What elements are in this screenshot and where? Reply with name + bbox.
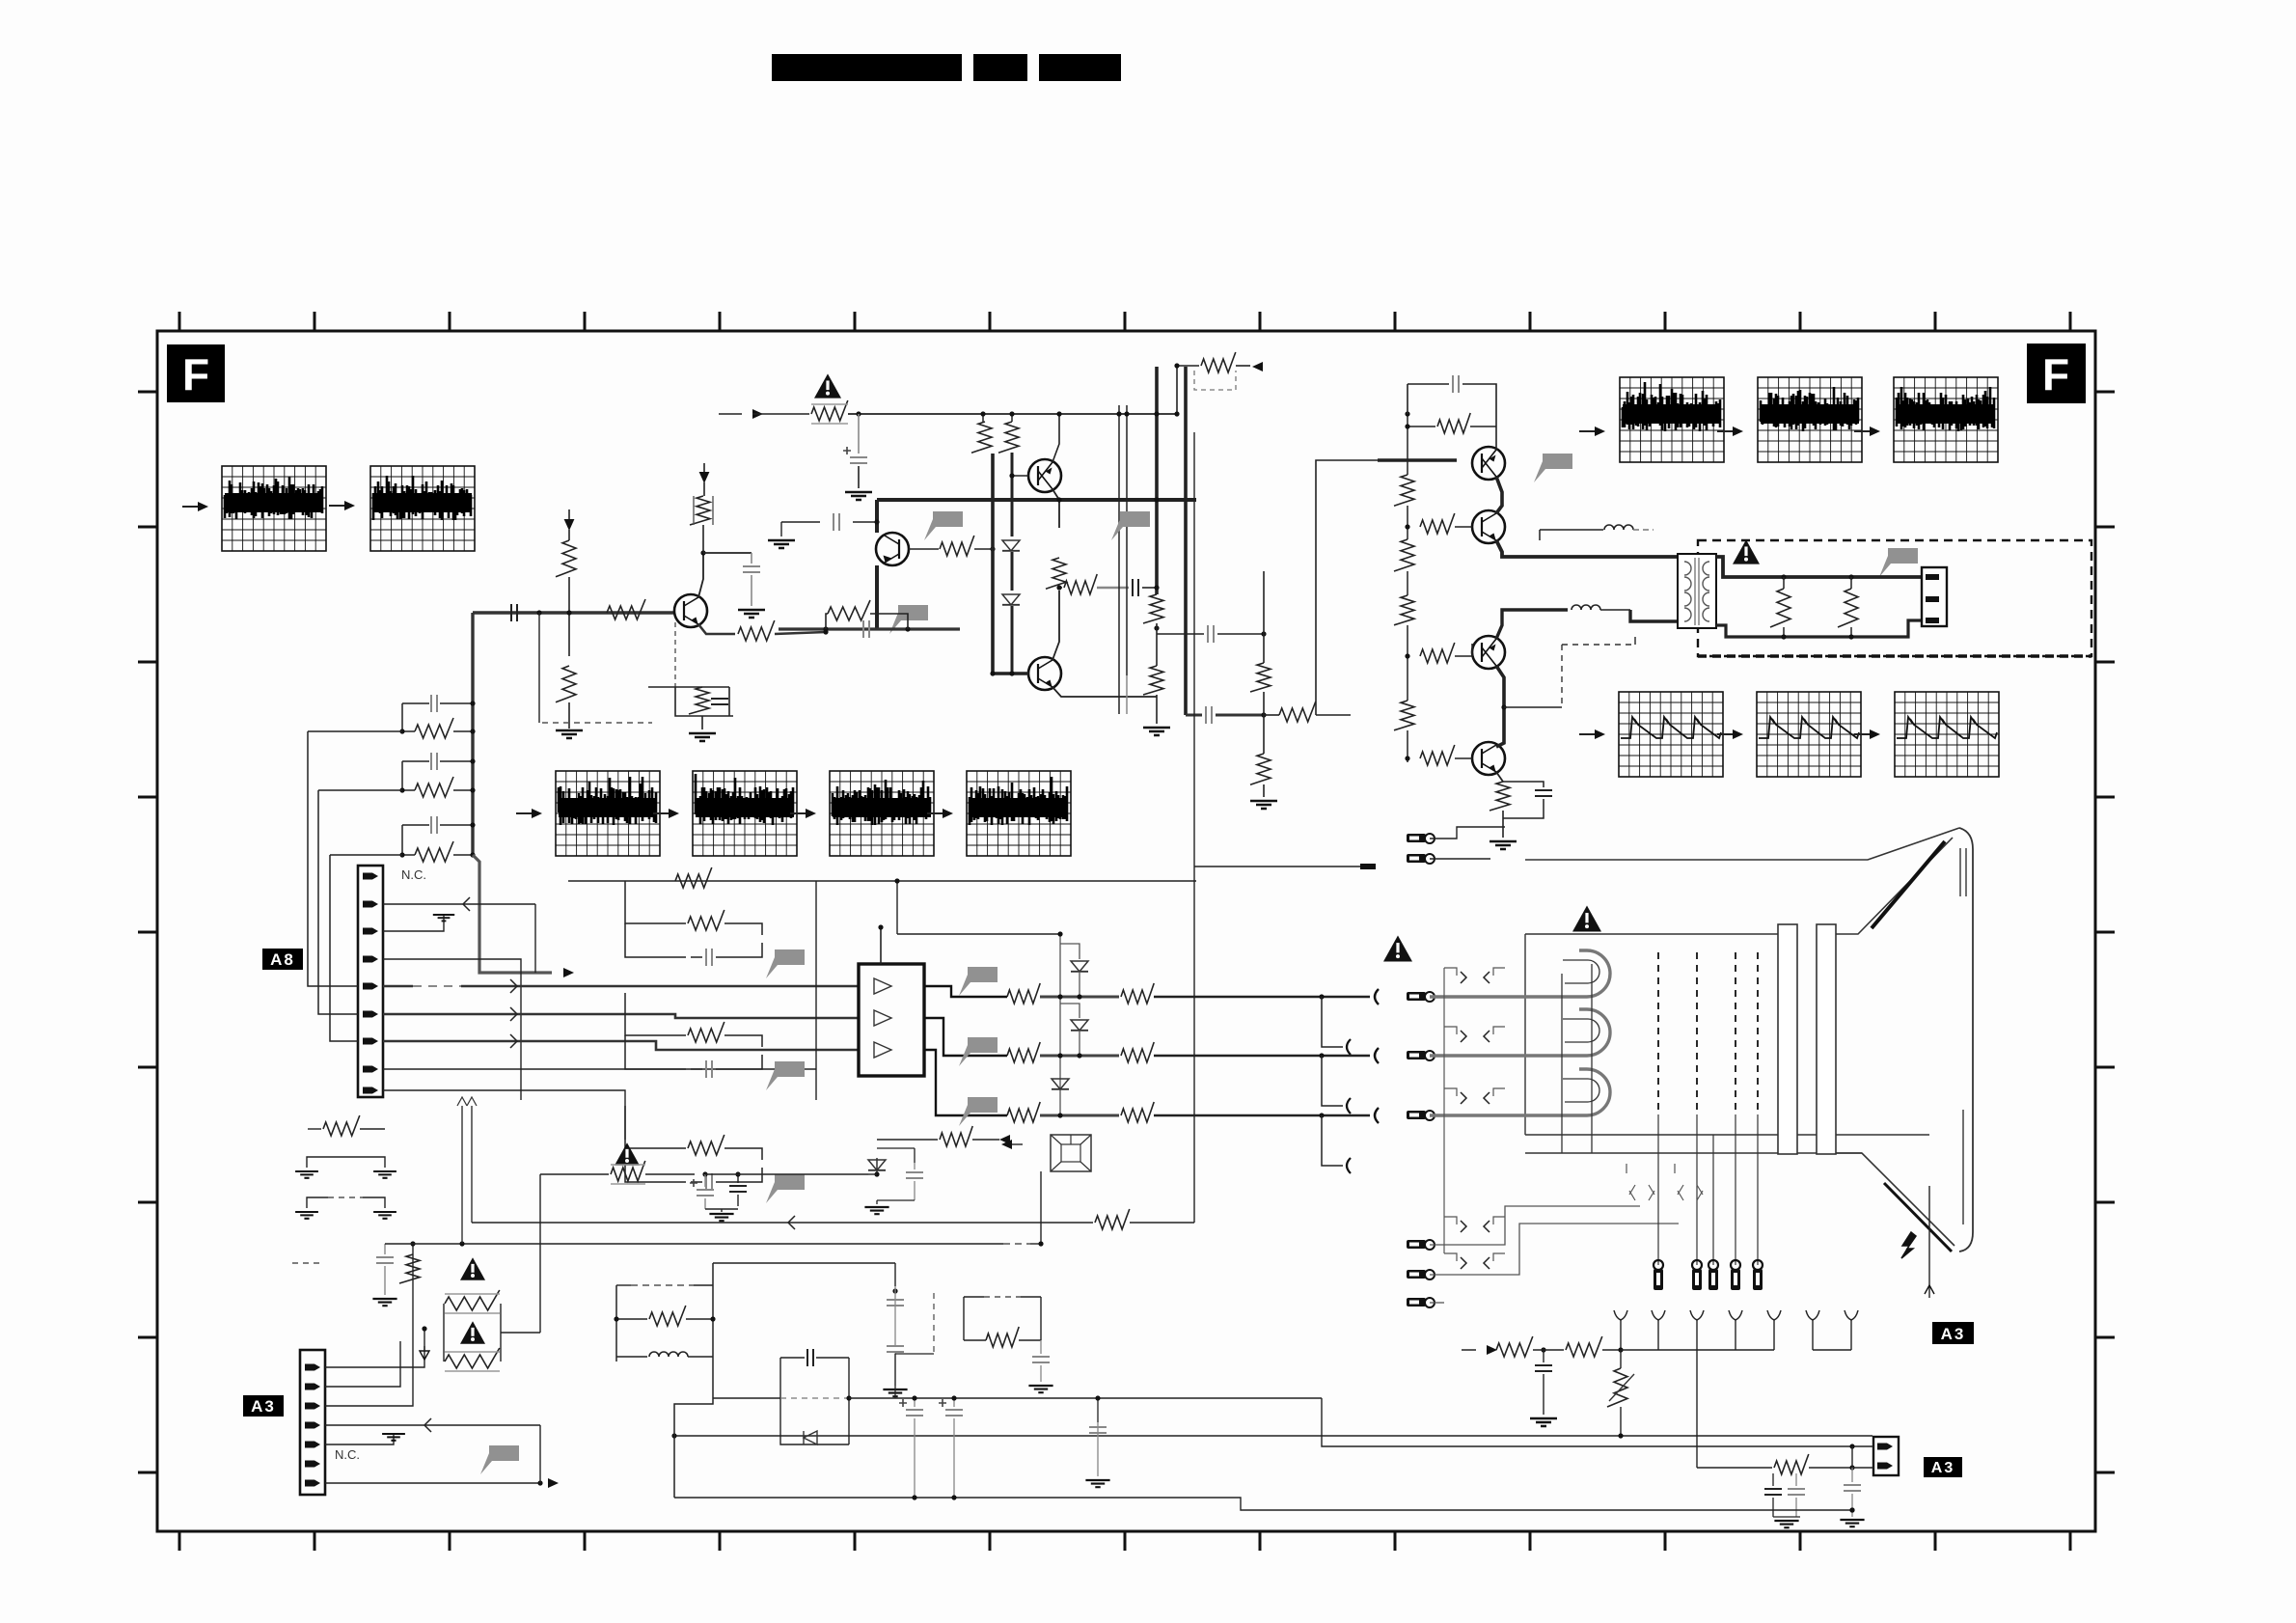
- resistor (T1 emitter): [738, 620, 775, 641]
- electrolytic cap x989: [953, 1398, 955, 1407]
- long wire 1267: [472, 1222, 1093, 1224]
- capacitor (channel 3): [625, 1148, 686, 1182]
- capacitor (channel 2): [625, 1035, 686, 1069]
- wire T3 base: [1012, 475, 1028, 477]
- capacitor (rail pair): [1126, 675, 1128, 714]
- convergence arrows y1309: [1444, 1253, 1457, 1261]
- pin9 wire: [383, 1090, 625, 1140]
- grid stub 3: [1322, 1115, 1343, 1166]
- resistor (panel b): [1838, 589, 1858, 627]
- signal arrow input: [752, 409, 763, 419]
- capacitor (conn filter a): [1775, 1468, 1777, 1486]
- RGB wire 3: [383, 1041, 859, 1050]
- CRT pin plug 2: [1407, 1051, 1426, 1059]
- resistor (T1 base): [607, 599, 645, 619]
- flag note (T2 collector): [924, 511, 963, 540]
- flag note (amp out 3): [959, 1097, 998, 1126]
- capacitor (connector filter c): [1851, 1468, 1853, 1482]
- electrolytic capacitor (input filter): [858, 414, 860, 454]
- grid stub 2: [1322, 1056, 1343, 1106]
- wire T4 emitter: [1052, 687, 1157, 697]
- resistor (channel 2 input): [625, 993, 686, 1035]
- deflection arrow pair x1750: [1674, 1164, 1676, 1173]
- svg-text:F: F: [182, 349, 209, 399]
- ground (rail c): [1143, 728, 1170, 735]
- HV return bus: [674, 1435, 1872, 1437]
- transistor T5: [1472, 447, 1505, 480]
- thick T5-T6 junction: [1496, 477, 1502, 513]
- thick wire panel bottom: [1716, 620, 1922, 637]
- T5 collector loop: [1462, 384, 1496, 450]
- electron gun heater 2: [1430, 1009, 1610, 1056]
- convergence arrows y1138: [1444, 1088, 1457, 1096]
- RC ladder rung 1: [401, 703, 403, 731]
- deflection arrow pair x1700: [1626, 1164, 1627, 1173]
- electrolytic cap x948: [914, 1398, 916, 1407]
- capacitor (input coupling): [511, 604, 517, 621]
- CRT bell top slant: [1836, 838, 1953, 934]
- svg-text:N.C.: N.C.: [401, 867, 426, 882]
- capacitor (right leg): [1097, 1398, 1099, 1422]
- capacitor (feedback): [711, 699, 728, 704]
- oscillogram waveform box 1: [222, 466, 326, 551]
- resistor (T1 bias upper): [556, 540, 576, 577]
- resistor (T7 base): [1420, 643, 1455, 663]
- cap pair right: [894, 1263, 896, 1286]
- flag note (rail pair): [1111, 511, 1150, 540]
- zone label F top-right: [2027, 344, 2086, 403]
- gap feed vertical: [1696, 1350, 1698, 1468]
- resistor (emitter degeneration): [826, 614, 828, 629]
- CRT grid electrode 1: [1778, 924, 1797, 1154]
- diode clamp column: [1059, 934, 1061, 1115]
- wire tee up: [1176, 366, 1178, 414]
- CRT bell bottom slant: [1836, 1153, 1954, 1246]
- focus pins: [1407, 1240, 1426, 1249]
- warning triangle (safety R inner): [460, 1321, 485, 1343]
- capacitor (emitter bypass): [863, 620, 869, 638]
- CRT screen pictogram: [1051, 1135, 1091, 1171]
- capacitor (coupling to rail): [1133, 579, 1138, 596]
- spark gap x1799: [1729, 1310, 1742, 1320]
- wire G2 top: [897, 933, 1060, 935]
- bottom rail: [674, 1497, 972, 1499]
- connector A8: [358, 866, 383, 1097]
- bottom rail right: [972, 1498, 1852, 1510]
- waveform pointer arrows: [182, 506, 198, 508]
- flag note (T2 emitter): [889, 605, 928, 634]
- resistor (wire 1267): [1095, 1209, 1130, 1229]
- resistor (bleeder b): [1566, 1336, 1602, 1357]
- title bar 3: [1039, 54, 1121, 81]
- focus bleeder arrow: [1487, 1345, 1497, 1355]
- svg-text:N.C.: N.C.: [335, 1447, 360, 1462]
- connector (panel 3-pin): [1922, 567, 1947, 626]
- electrolytic (degauss): [702, 1171, 707, 1176]
- label A3 (bottom right): [1924, 1457, 1962, 1477]
- flag note (channel 3): [766, 1174, 805, 1203]
- diode D1: [1002, 540, 1020, 551]
- emitter bottom bus: [779, 627, 877, 630]
- wire T4 collector: [1052, 591, 1059, 660]
- lightning bolt: [1901, 1232, 1916, 1258]
- safety resistor pair: [443, 1304, 445, 1362]
- coil (drive bottom): [1572, 605, 1600, 610]
- wire mid join: [894, 1354, 896, 1398]
- spark gap x1839: [1767, 1310, 1781, 1320]
- resistor (rail c lower): [1143, 666, 1163, 695]
- thick collector bus: [877, 498, 1196, 502]
- resistor (feedback): [689, 687, 709, 714]
- legend jumper: [307, 1157, 385, 1168]
- T8 emitter network: [1496, 772, 1503, 782]
- CRT base pins: [1654, 1260, 1663, 1270]
- flag note (A3): [480, 1445, 519, 1474]
- cathode terminal 3: [1375, 1108, 1379, 1123]
- oscillogram waveform box 9: [1894, 377, 1998, 462]
- amp output wires: [924, 986, 1007, 997]
- thick rail a: [991, 454, 995, 674]
- long feedback wire top: [568, 880, 1196, 882]
- wire T2 base: [909, 548, 939, 550]
- ladder feed wires: [308, 730, 402, 732]
- flag note T5: [1534, 454, 1572, 482]
- capacitor (channel 1): [625, 923, 686, 957]
- resistor + arrow (sync out): [877, 1139, 938, 1141]
- transistor T4: [1028, 657, 1061, 690]
- convergence arrows y1271: [1444, 1217, 1457, 1224]
- capacitor (rect filter): [914, 1163, 916, 1169]
- wire T1 input bus: [473, 611, 674, 614]
- convergence arrows y1074: [1444, 1027, 1457, 1034]
- RGB wire 1 (dashed start): [383, 985, 413, 988]
- ground (T1 bias): [556, 730, 583, 738]
- dashed top (degauss): [631, 1284, 694, 1286]
- resistor (degauss R): [616, 1318, 647, 1320]
- RC ladder rung 3: [401, 825, 403, 855]
- resistor (top row): [1201, 352, 1236, 372]
- thick T6 emitter to transformer: [1496, 540, 1678, 557]
- resistor (T6 base): [1420, 513, 1455, 534]
- cathode terminal 1: [1375, 989, 1379, 1004]
- arrow out (top row): [1252, 362, 1263, 371]
- resistor (panel a): [1770, 589, 1790, 627]
- flag note (amp out 1): [959, 967, 998, 996]
- capacitor mid link: [1208, 625, 1214, 643]
- fusible resistor (degauss feed): [615, 1142, 640, 1165]
- supply arrow (T1 collector): [699, 472, 710, 483]
- 2-pin connector (bottom right): [1873, 1437, 1899, 1475]
- dashed vertical (degauss): [933, 1293, 935, 1354]
- wire rail d bottom: [1186, 714, 1202, 717]
- resistor (rail e lower): [1250, 754, 1271, 784]
- transformer (drive): [1678, 554, 1716, 628]
- resistor (rail e upper): [1250, 663, 1271, 692]
- CRT yoke box: [1524, 934, 1526, 1135]
- transistor T6: [1472, 510, 1505, 543]
- resistor (cathode series 3b): [1121, 1102, 1154, 1122]
- fusible resistor input: [811, 400, 848, 421]
- resistor (cathode series 2b): [1121, 1042, 1154, 1062]
- feedback network box: [675, 687, 733, 716]
- oscillogram waveform box 6: [967, 771, 1071, 856]
- flag note (panel): [1879, 548, 1918, 577]
- CRT grid electrode 2: [1817, 924, 1836, 1154]
- oscillogram sawtooth box 10: [1619, 692, 1723, 777]
- cap-diode loop: [780, 1358, 849, 1444]
- wire input row: [752, 413, 809, 415]
- capacitor (decoupling): [743, 566, 760, 572]
- wire to decoupling cap: [703, 552, 752, 554]
- thick return wire: [473, 855, 552, 973]
- double riser wires: [461, 1106, 463, 1244]
- resistor link row: [1059, 587, 1062, 589]
- pin2 wire: [383, 903, 535, 905]
- cathode terminal 2: [1375, 1048, 1379, 1063]
- zone label F top-left: [167, 344, 225, 402]
- resistor (heater feed): [1697, 1467, 1772, 1469]
- resistor (cathode series 1a): [1007, 983, 1040, 1004]
- oscillogram waveform box 5: [830, 771, 934, 856]
- legend resistor: [308, 1128, 321, 1130]
- resistor (cathode series 1b): [1121, 983, 1154, 1004]
- safety resistor (collector load): [690, 496, 710, 525]
- dashed middle (loop): [780, 1397, 849, 1399]
- CRT pin plug 1: [1407, 992, 1426, 1001]
- diode (rectifier): [876, 1158, 878, 1174]
- pin3 ground wire: [383, 915, 444, 931]
- diode (loop): [804, 1431, 817, 1444]
- label A3 (left): [243, 1395, 284, 1417]
- dashed assembly box (CRT panel): [1698, 540, 2091, 656]
- ground (decoupling): [738, 610, 765, 618]
- svg-text:A3: A3: [1931, 1460, 1954, 1476]
- svg-text:A8: A8: [270, 950, 295, 969]
- gun rail vertical: [1561, 974, 1563, 1153]
- dashed feedback wire: [674, 622, 676, 687]
- flag note (channel 2): [766, 1061, 805, 1090]
- wire input branch down: [538, 613, 540, 723]
- title bar 1: [772, 54, 962, 81]
- posistor box: [964, 1296, 984, 1298]
- pin8 wire: [383, 1068, 816, 1070]
- flag note (amp out 2): [959, 1037, 998, 1066]
- bus wires to gaps: [1658, 1349, 1774, 1351]
- VDR: [1607, 1368, 1627, 1407]
- svg-text:A3: A3: [1941, 1325, 1966, 1343]
- degauss loop outline: [674, 1263, 713, 1498]
- thick rail d (x1229): [1184, 367, 1188, 715]
- ground (input filter): [845, 492, 872, 500]
- resistor (bias divider a): [982, 414, 984, 422]
- warning triangle (tube): [1383, 936, 1412, 962]
- connector A3 (left): [300, 1350, 325, 1495]
- ground (rail e): [1250, 801, 1277, 809]
- thick base tie T4: [993, 672, 1028, 674]
- open arrow down: [420, 1351, 429, 1360]
- wire T3 emitter to top: [1052, 414, 1059, 462]
- anode arrow line: [1928, 1186, 1930, 1298]
- A3 pin wires: [325, 1346, 424, 1367]
- oscillogram waveform box 8: [1758, 377, 1862, 462]
- supply arrow node: [564, 519, 575, 531]
- transistor T7: [1472, 636, 1505, 669]
- resistor (to driver): [1279, 701, 1316, 722]
- resistor chain x1459: [1407, 414, 1408, 475]
- thick rail c (x1199): [1155, 367, 1159, 594]
- CRT bottom thick diagonal: [1884, 1183, 1952, 1252]
- spark gap x1719: [1652, 1310, 1665, 1320]
- resistor (T2 base): [940, 536, 974, 556]
- RGB wire 2: [383, 1014, 859, 1018]
- CRT inner face lines: [1959, 848, 1961, 896]
- wire T3 collector: [1052, 489, 1059, 500]
- resistor (channel 3 input): [625, 1106, 686, 1148]
- oscillogram sawtooth box 11: [1757, 692, 1861, 777]
- vertical rail pair x1160: [1118, 405, 1120, 714]
- resistor (T1 bias lower): [556, 666, 576, 702]
- spark gap x1759: [1690, 1310, 1704, 1320]
- thick T7/T8 tie: [1496, 666, 1504, 747]
- pin4 wire: [383, 959, 521, 1100]
- warning triangle (safety R upper): [460, 1257, 485, 1279]
- amp feed vertical: [880, 927, 882, 964]
- diode D2: [1002, 594, 1020, 605]
- long wire 1287: [328, 1241, 1041, 1243]
- spark gap x1919: [1845, 1310, 1858, 1320]
- wire T1 collector: [698, 553, 703, 597]
- CRT neck top: [1525, 933, 1778, 935]
- heater wires: [1430, 827, 1505, 839]
- capacitor (conn filter b): [1795, 1473, 1797, 1486]
- resistor (cathode series 3a): [1007, 1102, 1040, 1122]
- electron gun heater 1: [1430, 950, 1610, 997]
- transistor T2: [876, 533, 909, 565]
- resistor (posistor): [986, 1327, 1019, 1347]
- sheet border frame: [157, 331, 2095, 1531]
- wires safety pair: [412, 1244, 414, 1305]
- connector feed wires: [1322, 1398, 1873, 1446]
- spark gap x1879: [1806, 1310, 1819, 1320]
- coil (drive top): [1540, 529, 1603, 531]
- resistor (T4 collector load): [1046, 558, 1066, 589]
- wire T1 emitter: [698, 624, 735, 634]
- warning triangle (yoke): [1572, 906, 1601, 932]
- bus vertical (input): [471, 613, 474, 855]
- svg-text:F: F: [2042, 349, 2069, 399]
- label A8: [262, 949, 303, 970]
- CRT pin plug 3: [1407, 1111, 1426, 1119]
- terminated stub wire: [1194, 866, 1360, 867]
- title bar 2: [973, 54, 1027, 81]
- oscillogram waveform box 2: [370, 466, 475, 551]
- resistor (channel 1 input): [625, 881, 686, 923]
- flag note (channel 1): [766, 949, 805, 978]
- cap + resistor at A3 top: [384, 1244, 386, 1254]
- capacitor (T2 base bypass): [781, 521, 820, 523]
- capacitor (bleeder): [1543, 1350, 1544, 1362]
- svg-text:A3: A3: [251, 1397, 276, 1416]
- resistor (T5 feedback): [1408, 426, 1435, 427]
- resistor (feedback top): [675, 867, 712, 888]
- oscillogram waveform box 3: [556, 771, 660, 856]
- oscillogram waveform box 7: [1620, 377, 1724, 462]
- CRT envelope top: [1525, 828, 1959, 860]
- CRT anode thick diagonal: [1872, 841, 1945, 928]
- arrow (beam): [1001, 1140, 1012, 1149]
- dashed outline (top row): [1194, 371, 1236, 390]
- resistor (bleeder a): [1496, 1336, 1533, 1357]
- transistor T8: [1472, 742, 1505, 775]
- top bus at 1289: [385, 1243, 1003, 1245]
- RGB output amplifier box: [859, 964, 924, 1076]
- thick drive wire to T5: [1316, 460, 1378, 715]
- rail e (x1310): [1263, 571, 1265, 663]
- CRT screen face: [1959, 828, 1973, 1252]
- wire T8 collector tap: [1504, 706, 1562, 708]
- transistor T3: [1028, 459, 1061, 492]
- grid stub 1: [1322, 997, 1343, 1047]
- electron gun heater 3: [1430, 1069, 1610, 1115]
- coil (degauss L): [616, 1356, 647, 1358]
- legend jumper dashed: [307, 1197, 328, 1208]
- resistor (cathode series 2a): [1007, 1042, 1040, 1062]
- transistor T1: [674, 594, 707, 627]
- label A3 (anode): [1932, 1322, 1974, 1344]
- RC ladder rung 2: [401, 761, 403, 790]
- CRT neck bottom: [1525, 1152, 1862, 1154]
- convergence arrows y1013: [1444, 968, 1457, 976]
- resistor (bias divider b): [1011, 414, 1013, 422]
- capacitor (degauss b): [737, 1174, 739, 1183]
- resistor (rail c upper): [1143, 594, 1163, 623]
- wire mid link: [1157, 633, 1204, 635]
- oscillogram waveform box 4: [693, 771, 797, 856]
- thick wire panel top: [1716, 557, 1922, 577]
- warning triangle (fusible resistor): [814, 373, 841, 398]
- warning triangle (panel): [1733, 539, 1760, 564]
- resistor (T8 base): [1420, 745, 1455, 765]
- CRT heater pins: [1407, 834, 1426, 842]
- wire T2 emitter bus: [875, 565, 879, 629]
- capacitor (rail d): [1206, 706, 1212, 724]
- legend dash: [292, 1262, 323, 1264]
- thick T7 collector bus: [1496, 610, 1568, 639]
- oscillogram sawtooth box 12: [1895, 692, 1999, 777]
- CRT base dashed leads: [1657, 952, 1659, 1114]
- spark gap x1680: [1614, 1310, 1627, 1320]
